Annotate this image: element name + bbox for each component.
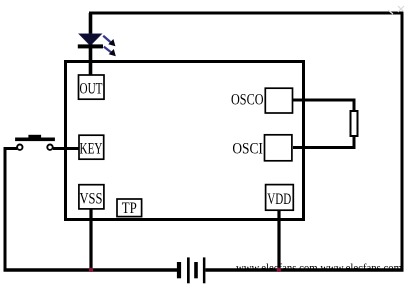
wire LED anode/cathode vertical (89, 13, 93, 76)
LED light arrow 1 head (108, 39, 115, 46)
pin box OSCO (265, 88, 292, 113)
pin box KEY (79, 135, 104, 159)
battery BT1 plate 2 long (187, 257, 190, 283)
wire bottom left segment (4, 268, 178, 272)
svg-text:KEY: KEY (80, 140, 103, 157)
pin box VSS (79, 185, 104, 209)
svg-text:OUT: OUT (80, 81, 103, 98)
wire left vertical (4, 148, 7, 272)
LED D1 triangle (79, 34, 102, 46)
wire bottom right segment (206, 268, 404, 272)
junction node VDD/bottom (277, 268, 281, 272)
wire resonator vertical (353, 99, 356, 150)
wire OSCO to resonator (293, 99, 354, 102)
switch S1 right contact (47, 145, 52, 150)
resistor R1 (oscillator) (351, 111, 358, 136)
battery BT1 plate 4 long (203, 257, 206, 283)
watermark speck near corner (388, 10, 393, 14)
svg-text:TP: TP (122, 200, 137, 217)
LED light arrow 2 shaft (104, 47, 111, 53)
pin box TP (117, 199, 142, 217)
junction node VSS/bottom (89, 268, 93, 272)
wire switch to KEY (53, 147, 79, 150)
wire top (89, 12, 402, 15)
battery BT1 plate 3 short (194, 262, 198, 278)
pin box OSCI (265, 135, 292, 161)
watermark speck top right (398, 6, 404, 12)
pin box OUT (79, 75, 105, 99)
wire VSS to bottom (89, 208, 92, 270)
switch S1 left contact (17, 145, 22, 150)
pin box VDD (266, 185, 294, 211)
LED light arrow 2 head (109, 49, 116, 56)
svg-text:OSCI: OSCI (232, 140, 263, 157)
switch S1 actuator bar (15, 138, 55, 142)
LED light arrow 1 shaft (103, 36, 111, 43)
wire OSCI to resonator (293, 146, 354, 149)
LED D1 cathode bar (78, 44, 103, 48)
wire VDD to bottom (277, 209, 280, 270)
svg-text:OSCO: OSCO (231, 91, 264, 108)
wire right (401, 12, 404, 271)
switch S1 button bump (28, 135, 41, 138)
svg-text:VSS: VSS (80, 190, 103, 207)
svg-text:VDD: VDD (267, 191, 291, 208)
battery BT1 plate 1 short (177, 262, 181, 278)
IC U1 body (66, 62, 304, 220)
wire switch left stub (4, 147, 18, 150)
